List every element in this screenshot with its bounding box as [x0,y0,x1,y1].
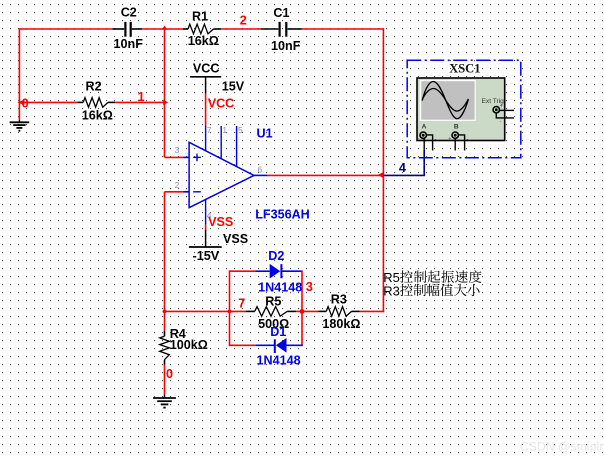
wire right vertical node 4 [382,28,384,312]
svg-text:+: + [416,136,419,142]
junction node0 (arrow) [17,100,24,105]
svg-text:100kΩ: 100kΩ [170,338,208,352]
junction node1 top (arrow) [162,26,168,30]
resistor R1 [183,28,188,30]
svg-text:B: B [454,124,459,131]
wire R3 to right corner [360,310,385,312]
ground bottom [164,395,166,399]
wire R5 to box right [296,310,303,312]
svg-text:A: A [422,124,427,131]
svg-text:VSS: VSS [223,232,248,246]
wire box to R5 [230,310,247,312]
svg-text:C2: C2 [121,6,137,20]
wire output row [267,174,383,176]
wire top row segment 2 (C2 to R1) [142,28,183,30]
svg-text:R3: R3 [331,293,347,307]
resistor R4 [164,331,166,336]
svg-text:0: 0 [166,367,173,381]
oscilloscope body [417,78,505,141]
wire R2 left [19,101,77,103]
oscilloscope XSC1 dashed selection box [407,60,521,157]
svg-text:C1: C1 [273,6,289,20]
junction feedback node7 left (dot) [163,310,167,314]
resistor R5 [246,310,255,312]
wire pin4 to VSS [205,225,207,231]
svg-text:7: 7 [238,296,245,310]
svg-text:LF356AH: LF356AH [255,208,310,222]
svg-text:1N4148: 1N4148 [258,281,302,295]
resistor R3 [318,310,326,312]
resistor R2 [78,101,84,103]
wire diode box left vertical [229,270,231,346]
op-amp plus sign [193,156,201,158]
wire diode box right vertical [301,270,303,346]
wire top row segment 4 (C1 to right corner) [302,28,384,30]
svg-text:1: 1 [222,125,227,135]
oscilloscope screen [420,80,476,121]
scope channel A wire [423,138,425,150]
svg-text:180kΩ: 180kΩ [322,317,360,331]
junction node4 (arrow) [378,172,384,178]
svg-text:2: 2 [240,14,247,28]
svg-text:+: + [500,103,503,109]
svg-text:15V: 15V [222,79,245,93]
svg-text:VCC: VCC [193,61,220,75]
sine trace 1 [422,81,468,118]
wire feedback vertical [164,192,166,312]
sine trace 2 [422,88,468,111]
svg-text:1N4148: 1N4148 [257,354,301,368]
svg-text:10nF: 10nF [271,39,301,53]
svg-text:10nF: 10nF [114,37,144,51]
svg-text:3: 3 [306,280,313,294]
svg-text:VCC: VCC [208,97,235,111]
svg-text:4: 4 [399,161,406,175]
op-amp pin 4 [205,199,207,224]
op-amp pin 7 [205,126,207,151]
svg-text:-15V: -15V [193,249,220,263]
svg-text:D1: D1 [270,325,286,339]
terminal B pin stub [454,138,456,150]
op-amp minus sign [193,191,201,193]
svg-text:+: + [448,136,451,142]
capacitor C1 [261,28,278,30]
svg-text:6: 6 [258,164,263,174]
VCC rail symbol [190,76,221,78]
svg-text:7: 7 [207,125,212,135]
svg-text:R1: R1 [192,10,208,24]
ext trig terminal [493,107,499,113]
svg-text:16kΩ: 16kΩ [82,109,113,123]
op-amp pin 5 [236,126,238,167]
svg-text:R3: R3 [383,283,400,298]
wire R2 right to node1 [115,101,165,103]
svg-text:2: 2 [175,180,180,190]
op-amp pin 1 [220,126,222,159]
wire node1 vertical [164,29,166,157]
VSS rail symbol [189,246,222,248]
wire R4 to ground [164,365,166,395]
svg-text:16kΩ: 16kΩ [188,34,219,48]
svg-text:3: 3 [175,145,180,155]
wire op-amp -in [165,191,184,193]
svg-text:R2: R2 [86,80,102,94]
wire box bottom red part [230,344,257,346]
wire top row segment 3 (R1 to C1) [221,28,261,30]
capacitor C2 [112,28,124,30]
svg-text:D2: D2 [268,249,284,263]
svg-text:1: 1 [138,90,145,104]
wire mid row to diode box [165,310,230,312]
svg-text:U1: U1 [257,127,273,141]
svg-text:VSS: VSS [208,215,233,229]
op-amp U1 LF356AH [189,142,254,207]
svg-text:CSDN @smiplrl: CSDN @smiplrl [520,440,604,454]
junction diode box left (dot) [228,310,232,314]
junction diode box right (dot) [300,309,305,314]
svg-text:XSC1: XSC1 [449,62,480,76]
wire box right to R3 [302,310,318,312]
svg-text:R5: R5 [265,295,281,309]
diode D1 1N4148 [256,344,275,346]
ground left [18,120,20,123]
ext trig pin stubs [499,109,514,111]
svg-text:0: 0 [22,96,29,110]
wire top row segment 1 [19,28,113,30]
wire node7 down to R4 [164,311,166,331]
svg-text:5: 5 [238,125,243,135]
wire box top red part [230,270,256,272]
junction node1 at R2 (arrow) [163,100,168,105]
diode D2 1N4148 [255,270,269,272]
wire op-amp +in [165,156,184,158]
wire VCC to pin7 [205,94,207,126]
wire node0 left vertical [18,28,20,120]
